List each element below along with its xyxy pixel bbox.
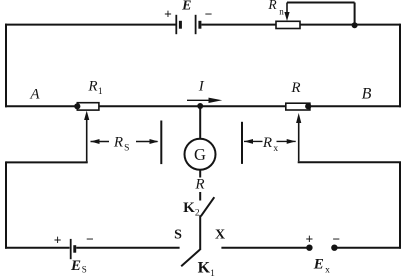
current arrow I bbox=[187, 79, 222, 103]
dimension Rx right arrow bbox=[277, 139, 296, 144]
boundary bar right (Rx) bbox=[241, 122, 243, 164]
contact dot R1 left end bbox=[74, 103, 80, 109]
contact dot R right end bbox=[305, 103, 311, 109]
wire Ex to bottom-right corner bbox=[337, 247, 401, 249]
wire ES to contact S bbox=[76, 247, 179, 249]
wire battery E to rheostat Rn bbox=[202, 24, 277, 26]
battery ES bbox=[54, 232, 94, 275]
wire K2 to selector pole bbox=[199, 215, 201, 250]
svg-text:S: S bbox=[174, 228, 182, 243]
svg-text:1: 1 bbox=[210, 269, 215, 276]
svg-text:n: n bbox=[279, 7, 284, 17]
wire contact X to Ex bbox=[221, 247, 306, 249]
svg-text:R: R bbox=[262, 135, 272, 151]
svg-text:−: − bbox=[86, 232, 94, 247]
svg-text:A: A bbox=[29, 86, 40, 102]
terminal dot Ex plus bbox=[306, 245, 312, 251]
resistor R bbox=[286, 80, 310, 110]
junction dot galvanometer branch bbox=[197, 103, 203, 109]
svg-text:S: S bbox=[82, 265, 87, 275]
terminal dot Ex minus bbox=[331, 245, 337, 251]
wire R label to switch K2 bbox=[199, 192, 201, 201]
svg-text:B: B bbox=[362, 86, 372, 103]
svg-text:−: − bbox=[332, 232, 340, 247]
svg-text:K: K bbox=[198, 260, 211, 276]
svg-text:1: 1 bbox=[98, 87, 103, 97]
label Rx bbox=[262, 135, 279, 154]
battery E bbox=[164, 0, 212, 34]
switch K1 blade bbox=[181, 250, 215, 276]
svg-text:+: + bbox=[306, 232, 314, 247]
wire left vertical (A side) bbox=[5, 24, 7, 108]
svg-text:+: + bbox=[164, 6, 172, 21]
boundary bar left (RS) bbox=[160, 121, 162, 165]
svg-text:+: + bbox=[54, 232, 62, 247]
svg-text:G: G bbox=[194, 145, 206, 164]
wire R1 slider to ES branch bbox=[6, 161, 88, 249]
svg-text:R: R bbox=[290, 80, 300, 96]
galvanometer G bbox=[185, 139, 216, 170]
svg-text:E: E bbox=[313, 256, 324, 272]
svg-text:S: S bbox=[124, 144, 129, 154]
wire bottom-left to ES bbox=[5, 247, 70, 249]
switch K2 bbox=[183, 197, 214, 218]
svg-text:I: I bbox=[198, 79, 205, 95]
wire Rn to top-right corner bbox=[300, 24, 400, 26]
wire top-left horizontal bbox=[5, 24, 176, 26]
svg-text:E: E bbox=[70, 258, 81, 274]
svg-text:−: − bbox=[205, 6, 213, 21]
junction dot Rn return bbox=[352, 22, 358, 28]
wire right vertical top (B side) bbox=[399, 24, 401, 108]
dimension RS right arrow bbox=[136, 139, 159, 144]
svg-text:R: R bbox=[113, 134, 123, 150]
wire Rn slider return bbox=[287, 3, 355, 26]
Rn slider arrow bbox=[284, 3, 289, 22]
svg-text:2: 2 bbox=[195, 208, 200, 218]
dimension RS left arrow bbox=[91, 139, 110, 144]
svg-text:R: R bbox=[194, 176, 204, 192]
label RS bbox=[113, 134, 130, 153]
svg-text:X: X bbox=[215, 228, 225, 243]
battery Ex labels bbox=[306, 232, 341, 276]
wire R slider to Ex branch bbox=[298, 162, 401, 248]
svg-text:x: x bbox=[325, 265, 330, 275]
svg-text:E: E bbox=[181, 0, 191, 14]
wire junction to galvanometer bbox=[199, 106, 201, 139]
dimension Rx left arrow bbox=[244, 139, 263, 144]
svg-text:K: K bbox=[183, 200, 195, 216]
R slider arrow bbox=[296, 113, 301, 161]
svg-text:x: x bbox=[273, 144, 278, 154]
wire middle R to B bbox=[310, 105, 401, 107]
wire galvanometer to R label bbox=[199, 170, 201, 178]
resistor R1 bbox=[77, 78, 103, 110]
resistor Rn bbox=[267, 0, 300, 29]
wire middle A to R1 bbox=[5, 105, 77, 107]
R1 slider arrow bbox=[84, 111, 89, 162]
wire middle R1 to R bbox=[99, 105, 286, 107]
svg-text:R: R bbox=[87, 78, 97, 94]
svg-text:R: R bbox=[267, 0, 277, 12]
